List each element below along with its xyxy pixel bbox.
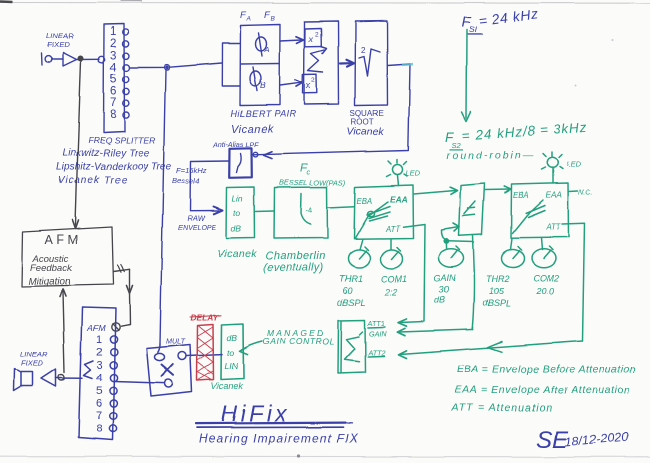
- svg-text:60: 60: [343, 286, 353, 296]
- svg-text:20.0: 20.0: [536, 286, 555, 296]
- svg-text:LINEAR: LINEAR: [46, 31, 74, 40]
- svg-text:ATT = Attenuation: ATT = Attenuation: [451, 402, 553, 414]
- svg-text:2: 2: [96, 347, 102, 359]
- svg-text:8: 8: [110, 109, 116, 121]
- svg-text:2:2: 2:2: [384, 287, 398, 297]
- svg-text:EBA = Envelope Before Attenuat: EBA = Envelope Before Attenuation: [457, 364, 636, 376]
- svg-text:dB: dB: [231, 224, 242, 234]
- svg-text:4: 4: [96, 372, 102, 384]
- svg-text:FIXED: FIXED: [47, 40, 70, 49]
- svg-text:3: 3: [110, 50, 116, 62]
- svg-text:6: 6: [110, 86, 116, 98]
- svg-text:F=16kHz: F=16kHz: [176, 166, 207, 175]
- svg-text:EAA: EAA: [390, 194, 408, 204]
- svg-text:-4: -4: [306, 206, 313, 215]
- svg-text:7: 7: [96, 410, 102, 422]
- svg-text:ATT2: ATT2: [367, 348, 385, 357]
- svg-text:2: 2: [110, 38, 116, 50]
- svg-text:6: 6: [96, 398, 102, 410]
- svg-text:Chamberlin: Chamberlin: [265, 251, 325, 263]
- svg-text:AFM: AFM: [45, 233, 82, 247]
- svg-text:4: 4: [110, 62, 117, 74]
- svg-text:to: to: [233, 208, 240, 218]
- svg-text:GAIN: GAIN: [369, 329, 387, 338]
- svg-text:Hearing Impairement FIX: Hearing Impairement FIX: [199, 432, 358, 446]
- svg-text:x: x: [308, 34, 314, 44]
- svg-text:S2: S2: [452, 141, 462, 150]
- svg-text:dB: dB: [434, 296, 445, 306]
- svg-text:dBSPL: dBSPL: [338, 298, 366, 308]
- svg-text:B: B: [271, 16, 276, 23]
- svg-text:DELAY: DELAY: [191, 313, 220, 323]
- svg-text:2: 2: [361, 46, 366, 55]
- svg-text:to: to: [227, 348, 234, 358]
- svg-text:FIXED: FIXED: [21, 359, 44, 368]
- svg-text:1: 1: [96, 334, 102, 346]
- svg-text:MULT: MULT: [166, 337, 186, 346]
- svg-text:7: 7: [110, 97, 116, 109]
- svg-text:GAIN CONTROL: GAIN CONTROL: [263, 337, 335, 347]
- svg-text:RAW: RAW: [187, 214, 205, 223]
- svg-text:dB: dB: [227, 333, 238, 343]
- svg-text:8: 8: [96, 423, 102, 435]
- svg-text:Vicanek: Vicanek: [211, 381, 243, 391]
- svg-text:Vicanek Tree: Vicanek Tree: [58, 175, 128, 186]
- svg-text:COM2: COM2: [533, 273, 559, 283]
- svg-text:5: 5: [110, 74, 116, 86]
- svg-text:EAA = Envelope After Attenuati: EAA = Envelope After Attenuation: [455, 384, 631, 396]
- svg-text:1: 1: [110, 26, 116, 38]
- svg-text:GAIN: GAIN: [434, 274, 457, 284]
- svg-text:LIN: LIN: [225, 361, 239, 371]
- svg-text:105: 105: [489, 287, 505, 297]
- svg-text:HiLBERT PAIR: HiLBERT PAIR: [231, 109, 296, 119]
- svg-text:LINEAR: LINEAR: [20, 350, 48, 359]
- svg-text:BESSEL LOW(PAS): BESSEL LOW(PAS): [279, 178, 346, 187]
- svg-text:HiFix: HiFix: [221, 401, 289, 427]
- svg-text:(eventually): (eventually): [263, 262, 323, 274]
- svg-text:AFM: AFM: [86, 323, 106, 333]
- svg-text:B: B: [260, 81, 266, 91]
- svg-text:SI: SI: [469, 25, 478, 35]
- svg-text:EAA: EAA: [546, 191, 563, 200]
- svg-text:x: x: [305, 81, 311, 91]
- svg-text:Vicanek: Vicanek: [231, 124, 273, 136]
- svg-text:EBA: EBA: [513, 191, 529, 200]
- svg-text:A: A: [246, 16, 251, 23]
- svg-text:Anti-Alias LPF: Anti-Alias LPF: [212, 140, 259, 149]
- svg-text:Feedback: Feedback: [31, 263, 74, 274]
- svg-text:round-robin—: round-robin—: [447, 150, 535, 162]
- svg-text:ATT: ATT: [385, 225, 401, 234]
- svg-text:3: 3: [96, 359, 102, 371]
- svg-text:ATT: ATT: [545, 223, 561, 232]
- svg-text:EBA: EBA: [357, 197, 373, 206]
- svg-text:A: A: [264, 45, 270, 54]
- svg-text:Mitigation: Mitigation: [29, 277, 71, 288]
- svg-text:2: 2: [315, 31, 319, 38]
- svg-text:dBSPL: dBSPL: [483, 299, 511, 309]
- svg-text:Bessel4: Bessel4: [172, 177, 199, 186]
- svg-text:Linkwitz-Riley Tree: Linkwitz-Riley Tree: [62, 148, 150, 159]
- svg-text:5: 5: [96, 385, 102, 397]
- svg-text:N.C.: N.C.: [579, 188, 593, 197]
- svg-text:2: 2: [312, 77, 316, 84]
- svg-text:LED: LED: [567, 160, 582, 169]
- svg-text:THR2: THR2: [486, 274, 510, 284]
- svg-text:ATT1: ATT1: [367, 319, 385, 328]
- svg-text:COM1: COM1: [381, 274, 407, 284]
- svg-text:ENVELOPE: ENVELOPE: [178, 225, 216, 232]
- svg-text:FREQ SPLITTER: FREQ SPLITTER: [88, 135, 155, 145]
- svg-text:Vicanek: Vicanek: [217, 249, 257, 261]
- svg-text:Lin: Lin: [232, 194, 244, 204]
- svg-text:LED: LED: [406, 169, 421, 178]
- svg-text:Lipshitz-Vanderkooy Tree: Lipshitz-Vanderkooy Tree: [56, 162, 172, 173]
- svg-text:30: 30: [439, 285, 449, 295]
- svg-text:c: c: [307, 170, 311, 177]
- svg-text:THR1: THR1: [339, 274, 363, 284]
- svg-text:Vicanek: Vicanek: [347, 126, 385, 138]
